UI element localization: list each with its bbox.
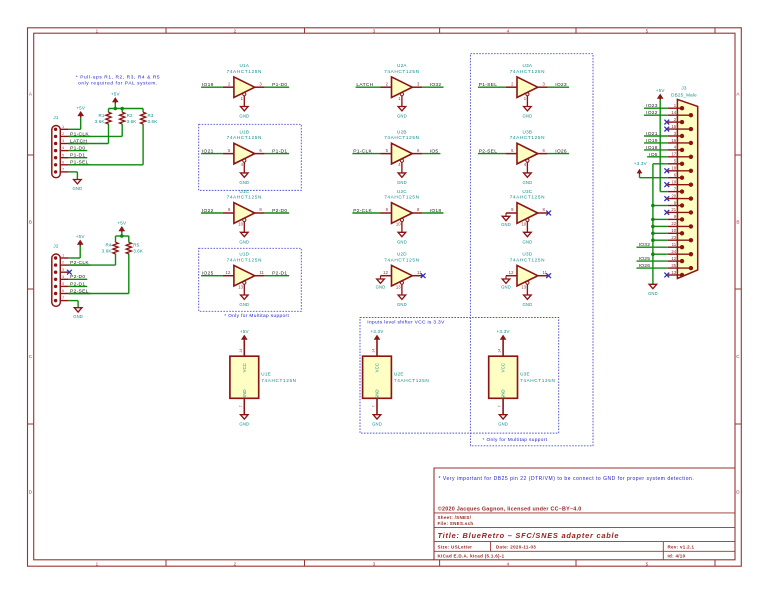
- svg-text:20: 20: [671, 193, 676, 198]
- svg-text:J2: J2: [53, 244, 58, 249]
- svg-text:GND: GND: [397, 240, 407, 245]
- svg-text:VCC: VCC: [501, 363, 506, 372]
- svg-text:3.6K: 3.6K: [102, 248, 112, 253]
- svg-text:©2020 Jacques Gagnon, licensed: ©2020 Jacques Gagnon, licensed under CC–…: [438, 505, 582, 512]
- svg-text:U3E: U3E: [520, 372, 530, 377]
- svg-text:2: 2: [62, 132, 64, 136]
- svg-text:14: 14: [671, 110, 676, 115]
- svg-text:13: 13: [521, 284, 526, 289]
- svg-text:P1-D0: P1-D0: [272, 82, 287, 88]
- svg-text:3.6K: 3.6K: [133, 248, 143, 253]
- svg-text:IO32: IO32: [430, 82, 442, 88]
- svg-text:74AHCT125N: 74AHCT125N: [510, 69, 545, 74]
- svg-text:VCC: VCC: [242, 363, 247, 372]
- svg-text:74AHCT125N: 74AHCT125N: [394, 378, 429, 383]
- svg-text:1: 1: [62, 125, 64, 129]
- svg-text:GND: GND: [501, 222, 511, 227]
- svg-text:6: 6: [62, 289, 64, 293]
- svg-text:6: 6: [62, 160, 64, 164]
- svg-text:Inputs level shifter VCC is 3.: Inputs level shifter VCC is 3.3V: [367, 320, 445, 326]
- svg-text:P1-D1: P1-D1: [272, 149, 287, 155]
- svg-text:GND: GND: [239, 302, 249, 307]
- svg-text:3.6K: 3.6K: [95, 119, 105, 124]
- svg-text:* Very important for DB25 pin: * Very important for DB25 pin 22 (DTR/VM…: [439, 476, 695, 482]
- svg-text:IO19: IO19: [202, 82, 214, 88]
- svg-text:GND: GND: [501, 285, 511, 290]
- svg-text:22: 22: [671, 221, 676, 226]
- svg-text:1: 1: [96, 29, 99, 34]
- svg-text:* Only for Multitap support: * Only for Multitap support: [483, 437, 548, 443]
- svg-text:IO18: IO18: [430, 208, 442, 214]
- svg-text:74AHCT125N: 74AHCT125N: [384, 257, 419, 262]
- svg-text:Rev: v1.2.1: Rev: v1.2.1: [668, 545, 695, 550]
- svg-text:U3C: U3C: [522, 189, 532, 194]
- svg-text:IO21: IO21: [646, 131, 658, 137]
- svg-text:U1E: U1E: [261, 372, 271, 377]
- svg-text:D: D: [736, 490, 740, 495]
- svg-text:24: 24: [671, 249, 676, 254]
- svg-text:7: 7: [372, 405, 376, 407]
- svg-text:IO18: IO18: [646, 145, 658, 151]
- svg-text:J3: J3: [681, 86, 686, 91]
- svg-text:IO19: IO19: [646, 138, 658, 144]
- svg-text:GND: GND: [648, 291, 658, 296]
- svg-text:74AHCT125N: 74AHCT125N: [510, 257, 545, 262]
- svg-text:17: 17: [671, 152, 676, 157]
- svg-text:4: 4: [507, 29, 510, 34]
- svg-text:IO25: IO25: [202, 271, 214, 277]
- svg-text:4: 4: [62, 275, 64, 279]
- svg-text:GND: GND: [523, 240, 533, 245]
- svg-text:18: 18: [671, 166, 676, 171]
- svg-text:+5V: +5V: [117, 220, 127, 225]
- svg-text:13: 13: [238, 284, 243, 289]
- svg-text:R1: R1: [98, 113, 104, 118]
- svg-text:P2-D0: P2-D0: [272, 208, 287, 214]
- svg-text:U3D: U3D: [522, 252, 532, 257]
- svg-text:3.6K: 3.6K: [148, 119, 158, 124]
- svg-text:IO23: IO23: [555, 82, 567, 88]
- svg-text:2: 2: [62, 261, 64, 265]
- svg-text:12: 12: [509, 270, 514, 275]
- svg-text:1: 1: [62, 254, 64, 258]
- svg-text:11: 11: [259, 270, 264, 275]
- svg-text:U2C: U2C: [397, 189, 407, 194]
- svg-text:12: 12: [383, 270, 388, 275]
- svg-text:23: 23: [671, 235, 676, 240]
- svg-text:DB25_Male: DB25_Male: [671, 93, 697, 98]
- svg-text:10: 10: [521, 222, 526, 227]
- svg-text:R4: R4: [105, 243, 111, 248]
- svg-text:3.6K: 3.6K: [127, 119, 137, 124]
- svg-text:3: 3: [373, 561, 376, 566]
- svg-text:+3.3V: +3.3V: [370, 329, 384, 334]
- svg-text:21: 21: [671, 207, 676, 212]
- svg-text:GND: GND: [239, 422, 249, 427]
- svg-text:12: 12: [671, 256, 676, 261]
- svg-text:GND: GND: [523, 114, 533, 119]
- svg-text:13: 13: [396, 284, 401, 289]
- svg-text:Id: 4/10: Id: 4/10: [668, 554, 686, 559]
- svg-text:5: 5: [646, 561, 649, 566]
- svg-text:IO32: IO32: [639, 242, 651, 248]
- svg-text:IO21: IO21: [202, 149, 214, 155]
- svg-text:4: 4: [507, 561, 510, 566]
- svg-text:P1-D1: P1-D1: [70, 153, 85, 159]
- svg-text:+5V: +5V: [76, 234, 86, 239]
- svg-text:14: 14: [372, 349, 376, 353]
- svg-text:IO23: IO23: [646, 103, 658, 109]
- svg-text:74AHCT125N: 74AHCT125N: [227, 195, 262, 200]
- svg-text:11: 11: [672, 242, 677, 247]
- svg-text:7: 7: [62, 296, 64, 300]
- svg-text:74AHCT125N: 74AHCT125N: [227, 135, 262, 140]
- svg-text:IO5: IO5: [430, 149, 439, 155]
- svg-text:5: 5: [62, 282, 64, 286]
- svg-text:GND: GND: [376, 285, 386, 290]
- svg-text:14: 14: [498, 349, 502, 353]
- svg-text:U3A: U3A: [523, 63, 533, 68]
- svg-text:Date: 2020-11-03: Date: 2020-11-03: [496, 545, 536, 550]
- svg-text:P1-SEL: P1-SEL: [479, 82, 498, 88]
- svg-text:R3: R3: [148, 113, 154, 118]
- svg-text:16: 16: [671, 138, 676, 143]
- svg-text:2: 2: [234, 29, 237, 34]
- svg-text:U2B: U2B: [397, 130, 407, 135]
- svg-text:GND: GND: [498, 422, 508, 427]
- svg-text:U1A: U1A: [239, 63, 249, 68]
- svg-text:5: 5: [62, 153, 64, 157]
- svg-text:GND: GND: [73, 314, 83, 319]
- svg-text:IO26: IO26: [555, 149, 567, 155]
- svg-text:74AHCT125N: 74AHCT125N: [261, 378, 296, 383]
- svg-text:* Only for Multitap support: * Only for Multitap support: [224, 313, 289, 319]
- svg-text:10: 10: [238, 222, 243, 227]
- svg-text:R5: R5: [133, 243, 139, 248]
- svg-text:3: 3: [373, 29, 376, 34]
- svg-text:KiCad E.D.A. kicad (5.1.6)-1: KiCad E.D.A. kicad (5.1.6)-1: [438, 554, 505, 559]
- svg-text:74AHCT125N: 74AHCT125N: [227, 257, 262, 262]
- svg-text:GND: GND: [239, 180, 249, 185]
- svg-text:P2-D1: P2-D1: [272, 271, 287, 277]
- svg-text:74AHCT125N: 74AHCT125N: [227, 69, 262, 74]
- svg-text:+5V: +5V: [656, 88, 666, 93]
- svg-text:U2D: U2D: [397, 252, 407, 257]
- svg-text:B: B: [29, 220, 32, 225]
- svg-text:+5V: +5V: [76, 105, 86, 110]
- svg-text:LATCH: LATCH: [356, 82, 373, 88]
- svg-text:7: 7: [62, 168, 64, 172]
- svg-text:IO25: IO25: [639, 256, 651, 262]
- svg-text:VCC: VCC: [375, 363, 380, 372]
- svg-text:U1B: U1B: [239, 130, 249, 135]
- svg-text:25: 25: [671, 263, 676, 268]
- svg-text:File: SNES.sch: File: SNES.sch: [438, 521, 474, 526]
- svg-text:74AHCT125N: 74AHCT125N: [384, 135, 419, 140]
- svg-text:+3.3V: +3.3V: [497, 329, 511, 334]
- svg-text:IO26: IO26: [639, 263, 651, 269]
- svg-text:12: 12: [226, 270, 231, 275]
- svg-text:3: 3: [62, 139, 64, 143]
- svg-text:GND: GND: [73, 186, 83, 191]
- svg-text:only required for PAL system.: only required for PAL system.: [78, 81, 158, 87]
- svg-text:2: 2: [234, 561, 237, 566]
- svg-text:Sheet: /SNES/: Sheet: /SNES/: [438, 515, 472, 520]
- svg-text:3: 3: [62, 268, 64, 272]
- svg-text:+5V: +5V: [240, 329, 250, 334]
- svg-text:GND: GND: [397, 302, 407, 307]
- svg-text:4: 4: [62, 146, 64, 150]
- svg-text:C: C: [736, 354, 740, 359]
- svg-text:13: 13: [671, 270, 676, 275]
- svg-text:P1-D0: P1-D0: [70, 146, 85, 152]
- svg-text:R2: R2: [127, 113, 133, 118]
- svg-text:* Pull-ups R1, R2, R3, R4 & R5: * Pull-ups R1, R2, R3, R4 & R5: [76, 74, 160, 80]
- svg-text:Title: BlueRetro – SFC/SNES ad: Title: BlueRetro – SFC/SNES adapter cabl…: [438, 531, 620, 540]
- svg-text:U2E: U2E: [394, 372, 404, 377]
- svg-text:GND: GND: [372, 422, 382, 427]
- svg-text:GND: GND: [523, 302, 533, 307]
- svg-text:+5V: +5V: [111, 92, 121, 97]
- svg-text:U3B: U3B: [523, 130, 533, 135]
- svg-text:IO5: IO5: [649, 152, 658, 158]
- svg-text:74AHCT125N: 74AHCT125N: [384, 69, 419, 74]
- svg-text:+3.3V: +3.3V: [634, 161, 648, 166]
- svg-text:P1-CLK: P1-CLK: [353, 149, 372, 155]
- svg-text:74AHCT125N: 74AHCT125N: [510, 195, 545, 200]
- svg-text:GND: GND: [375, 389, 380, 399]
- svg-text:U1D: U1D: [239, 252, 249, 257]
- svg-text:7: 7: [498, 405, 502, 407]
- svg-text:B: B: [736, 220, 739, 225]
- svg-text:15: 15: [671, 124, 676, 129]
- svg-text:GND: GND: [523, 180, 533, 185]
- svg-text:5: 5: [646, 29, 649, 34]
- svg-text:7: 7: [239, 405, 243, 407]
- svg-text:J1: J1: [53, 115, 58, 120]
- svg-text:P2-D0: P2-D0: [70, 274, 85, 280]
- svg-text:14: 14: [239, 349, 243, 353]
- svg-text:74AHCT125N: 74AHCT125N: [510, 135, 545, 140]
- svg-text:IO22: IO22: [646, 110, 658, 116]
- svg-text:GND: GND: [242, 389, 247, 399]
- svg-text:P2-D1: P2-D1: [70, 281, 85, 287]
- svg-text:D: D: [29, 490, 33, 495]
- svg-text:P2-CLK: P2-CLK: [353, 208, 372, 214]
- svg-text:GND: GND: [239, 114, 249, 119]
- svg-text:GND: GND: [397, 114, 407, 119]
- svg-text:Size: USLetter: Size: USLetter: [438, 545, 473, 550]
- svg-text:C: C: [29, 354, 33, 359]
- svg-text:1: 1: [96, 561, 99, 566]
- svg-text:U2A: U2A: [397, 63, 407, 68]
- svg-text:19: 19: [671, 180, 676, 185]
- svg-text:U1C: U1C: [239, 189, 249, 194]
- svg-text:GND: GND: [397, 180, 407, 185]
- svg-text:IO22: IO22: [202, 208, 214, 214]
- svg-text:74AHCT125N: 74AHCT125N: [384, 195, 419, 200]
- svg-text:GND: GND: [501, 389, 506, 399]
- svg-text:10: 10: [671, 228, 676, 233]
- svg-text:74AHCT125N: 74AHCT125N: [520, 378, 555, 383]
- svg-text:P2-SEL: P2-SEL: [479, 149, 498, 155]
- svg-text:GND: GND: [239, 240, 249, 245]
- svg-text:10: 10: [396, 222, 401, 227]
